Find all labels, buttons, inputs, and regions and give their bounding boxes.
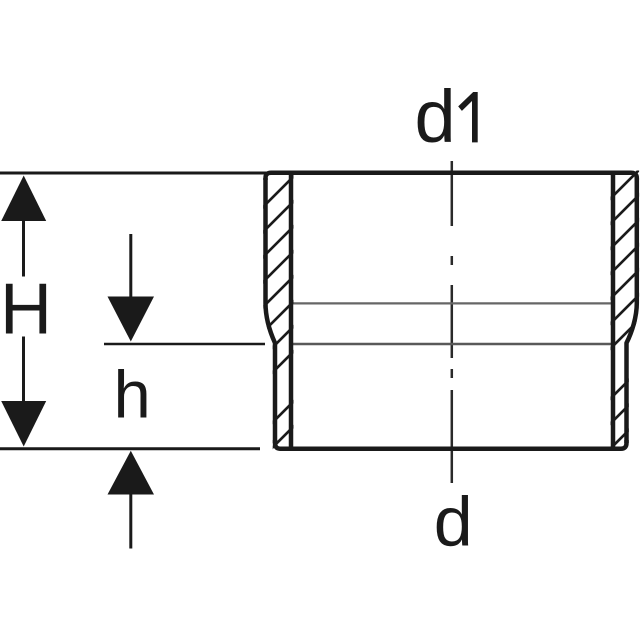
svg-text:d: d [434, 482, 473, 560]
svg-text:h: h [114, 358, 151, 433]
svg-text:H: H [0, 269, 52, 349]
svg-text:d: d [415, 75, 456, 158]
